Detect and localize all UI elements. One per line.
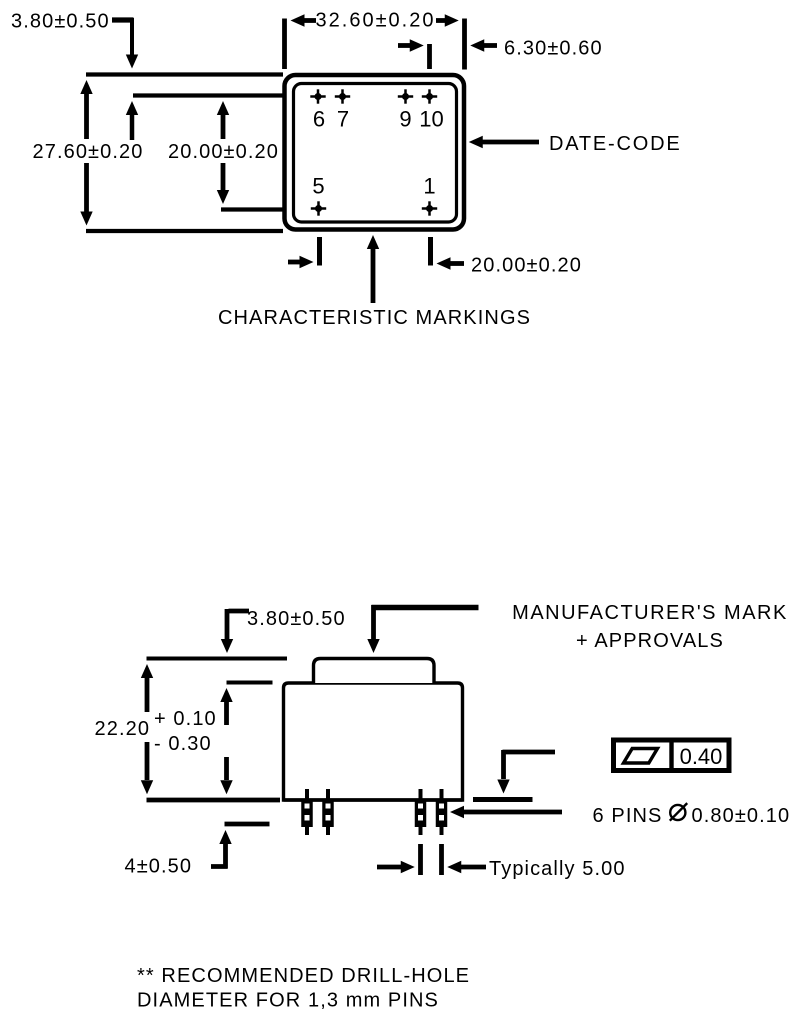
label 6 PINS [593, 805, 663, 827]
flatness tolerance value 0.40 [680, 744, 723, 769]
transformer body side view [284, 683, 463, 800]
label MANUFACTURER'S MARK [512, 602, 788, 624]
arrowhead pointing left at pin-1 tick [437, 257, 465, 269]
dimension label 3.80±0.50 (side view) [247, 608, 346, 630]
arrowhead pointing right at 32.60 right tick [436, 14, 459, 26]
seating plane extension line [147, 798, 281, 803]
side view pin A [301, 789, 313, 835]
svg-text:32.60±0.20: 32.60±0.20 [316, 10, 436, 32]
arrowhead pointing left at 32.60 left tick [291, 14, 317, 26]
extension line body top [227, 681, 273, 685]
svg-text:7: 7 [337, 107, 349, 132]
package outline top view (outer case edge) [285, 75, 465, 230]
extension line lid top [147, 657, 288, 661]
leader arrow to package right edge for date code [469, 136, 539, 148]
package top face inner edge [294, 84, 457, 223]
svg-text:- 0.30: - 0.30 [154, 733, 212, 755]
flatness feature control frame [614, 740, 730, 771]
extension line package top edge [86, 72, 283, 76]
svg-text:** RECOMMENDED DRILL-HOLE: ** RECOMMENDED DRILL-HOLE [137, 965, 470, 987]
svg-text:20.00±0.20: 20.00±0.20 [471, 255, 582, 277]
pin number 6 [313, 107, 325, 132]
svg-text:DIAMETER FOR 1,3 mm PINS: DIAMETER FOR 1,3 mm PINS [137, 990, 439, 1012]
leader arrow up to package bottom for markings [367, 235, 379, 303]
side view pin D [436, 789, 448, 835]
arrowhead down to package top line [126, 55, 138, 69]
footnote line 2 [137, 990, 439, 1012]
svg-text:+ 0.10: + 0.10 [154, 708, 217, 730]
side view pin C [415, 789, 427, 835]
svg-text:0.40: 0.40 [680, 744, 723, 769]
svg-text:27.60±0.20: 27.60±0.20 [33, 141, 144, 163]
dimension label 32.60±0.20 [316, 10, 436, 32]
pin 6 position cross [310, 89, 325, 103]
extension tick left for 32.60 [282, 19, 287, 70]
pin number 5 [312, 174, 324, 199]
svg-text:20.00±0.20: 20.00±0.20 [168, 141, 279, 163]
seating plane stub right of body [473, 797, 533, 802]
tolerance label - 0.30 [154, 733, 212, 755]
svg-text:6 PINS: 6 PINS [593, 805, 663, 827]
dimension line body height lower part [220, 757, 232, 794]
svg-text:0.80±0.10: 0.80±0.10 [692, 805, 791, 827]
extension tick below pin 1 column [428, 237, 433, 266]
bottom edge of body (seating) [284, 798, 463, 801]
dimension label 22.20 [95, 718, 151, 740]
svg-text:CHARACTERISTIC MARKINGS: CHARACTERISTIC MARKINGS [218, 307, 531, 329]
svg-text:5: 5 [312, 174, 324, 199]
svg-text:10: 10 [419, 107, 443, 132]
transformer lid hump side view [314, 659, 435, 684]
extension line package bottom edge [86, 229, 283, 233]
svg-text:4±0.50: 4±0.50 [125, 856, 193, 878]
dimension line 20.00 lower part [217, 163, 229, 204]
pin 9 position cross [398, 89, 413, 103]
leader line for flatness to seating plane [503, 750, 556, 779]
svg-text:9: 9 [399, 107, 411, 132]
dimension label 20.00±0.20 (bottom) [471, 255, 582, 277]
dimension label 20.00±0.20 (left) [168, 141, 279, 163]
dimension label 3.80±0.50 [11, 11, 110, 33]
dimension line total height upper part [141, 664, 153, 712]
svg-text:+ APPROVALS: + APPROVALS [576, 630, 724, 652]
arrowhead pointing right at pin-5 tick [288, 256, 314, 268]
pin 5 position cross [311, 201, 326, 215]
dimension label 27.60±0.20 [33, 141, 144, 163]
svg-text:DATE-CODE: DATE-CODE [549, 133, 682, 155]
extension tick below pin C [418, 844, 423, 875]
svg-text:3.80±0.50: 3.80±0.50 [11, 11, 110, 33]
extension line lower pin row [221, 207, 283, 211]
arrowhead pointing right at pin-10 tick [398, 39, 424, 51]
pin 1 position cross [422, 201, 437, 215]
flatness symbol parallelogram [624, 749, 658, 764]
leader for side 3.80 [227, 609, 249, 639]
extension tick below pin D [439, 844, 444, 875]
pin number 9 [399, 107, 411, 132]
pin number 1 [423, 174, 435, 199]
diameter symbol [670, 803, 687, 821]
dimension line 27.60 lower part [80, 163, 92, 226]
extension tick right for 32.60 [462, 19, 467, 70]
svg-text:6: 6 [313, 107, 325, 132]
leader line for manufacturer mark [372, 605, 479, 639]
extension tick below pin 5 column [317, 237, 322, 266]
pin 10 position cross [422, 89, 437, 103]
tolerance label + 0.10 [154, 708, 217, 730]
dimension line 20.00 upper part [217, 101, 229, 139]
label DATE-CODE [549, 133, 682, 155]
svg-text:Typically 5.00: Typically 5.00 [489, 858, 626, 880]
dimension line 27.60 upper part [80, 80, 92, 139]
arrowhead down to lid top [367, 639, 379, 653]
leader for 4±0.50 [211, 844, 228, 869]
footnote line 1 [137, 965, 470, 987]
arrowhead up to pin row line (3.80 lower outside arrow) [126, 101, 138, 140]
pin 7 position cross [335, 89, 350, 103]
pin number 7 [337, 107, 349, 132]
arrowhead down to seating stub [497, 780, 509, 794]
dimension label 4±0.50 [125, 856, 193, 878]
side view pin B [322, 789, 334, 835]
arrowhead pointing left at pin D tick [447, 861, 486, 873]
arrowhead up to pin-length stub [219, 830, 231, 844]
svg-text:22.20: 22.20 [95, 718, 151, 740]
label CHARACTERISTIC MARKINGS [218, 307, 531, 329]
pin number 10 [419, 107, 443, 132]
svg-text:MANUFACTURER'S MARK: MANUFACTURER'S MARK [512, 602, 788, 624]
extension stub for 4±0.50 [225, 822, 270, 827]
svg-text:1: 1 [423, 174, 435, 199]
arrowhead pointing right at pin C tick [377, 861, 415, 873]
label + APPROVALS [576, 630, 724, 652]
leader arrow to pin for pin diameter [450, 806, 562, 818]
dimension line body height upper part [220, 688, 232, 725]
leader line for 3.80 dimension [112, 18, 134, 56]
extension tick at pin 10 column [427, 44, 432, 69]
arrowhead down to lid top line [221, 639, 233, 653]
dimension label 6.30±0.60 [504, 38, 603, 60]
svg-text:6.30±0.60: 6.30±0.60 [504, 38, 603, 60]
label pin diameter 0.80±0.10 [692, 805, 791, 827]
extension line upper pin row [133, 93, 283, 97]
svg-text:3.80±0.50: 3.80±0.50 [247, 608, 346, 630]
arrowhead pointing left at package right edge for 6.30 [470, 39, 497, 51]
label Typically 5.00 [489, 858, 626, 880]
dimension line total height lower part [141, 742, 153, 794]
